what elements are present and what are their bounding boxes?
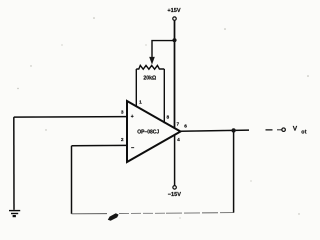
wire V- vertical	[174, 135, 176, 185]
svg-text:8: 8	[166, 115, 169, 121]
junction dot	[172, 38, 176, 42]
svg-text:−15V: −15V	[168, 192, 181, 198]
wire pin2 feedback horizontal	[72, 144, 127, 146]
wire pot right end to pin 8	[163, 69, 165, 123]
wire pot left end to pin 1	[135, 69, 137, 107]
svg-text:6: 6	[184, 123, 187, 129]
terminal +15V	[173, 17, 177, 21]
wire ground drop	[13, 117, 15, 210]
node output junction dot	[231, 128, 235, 132]
svg-text:+15V: +15V	[167, 8, 180, 14]
potentiometer R1 20k body	[136, 65, 164, 69]
wire output	[181, 130, 250, 131]
ground	[9, 211, 20, 217]
svg-text:+: +	[131, 114, 134, 120]
op-amp U1 triangle	[127, 101, 181, 162]
svg-text:OP–08CJ: OP–08CJ	[137, 129, 159, 135]
svg-text:−: −	[131, 145, 135, 151]
wire pin3 input from ground branch	[14, 116, 127, 119]
wire feedback left vertical	[71, 146, 73, 214]
svg-text:3: 3	[121, 110, 124, 116]
wire V+ vertical	[174, 21, 176, 129]
wire feedback right vertical to output node	[233, 130, 235, 212]
svg-text:4: 4	[177, 137, 180, 143]
wire feedback bottom run	[72, 213, 108, 215]
potentiometer R1 wiper arrow	[149, 57, 155, 65]
wire wiper branch	[152, 41, 175, 58]
blob arrow on feedback wire	[108, 213, 119, 221]
svg-text:7: 7	[176, 122, 179, 128]
output terminal	[282, 128, 286, 132]
svg-text:1: 1	[139, 99, 142, 105]
svg-text:2: 2	[121, 137, 124, 143]
svg-text:ot: ot	[301, 130, 306, 136]
svg-text:20kΩ: 20kΩ	[143, 75, 156, 81]
svg-text:V: V	[293, 125, 298, 132]
terminal -15V	[173, 186, 177, 190]
